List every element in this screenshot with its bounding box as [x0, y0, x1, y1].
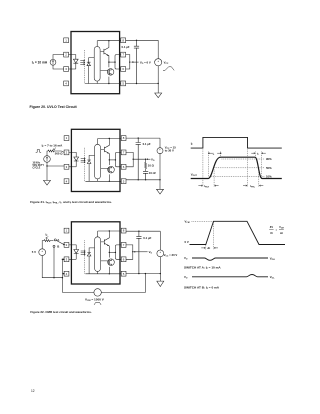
svg-text:to 30 V: to 30 V	[165, 149, 174, 153]
wire vcc bottom	[159, 257, 161, 274]
svg-text:0.1 µF: 0.1 µF	[143, 236, 151, 240]
formula dV/dt	[270, 226, 284, 235]
wire B down	[53, 247, 55, 278]
switch S1 terminal A	[54, 239, 56, 241]
dashed marker tf bounds	[255, 152, 261, 178]
svg-text:10 Ω: 10 Ω	[148, 164, 155, 168]
wire source to resistor	[47, 151, 48, 156]
junction	[145, 159, 146, 160]
svg-text:10%: 10%	[266, 175, 272, 179]
dashed marker 50% rise	[213, 170, 215, 187]
VO trace switch A	[192, 258, 268, 260]
svg-text:Δt: Δt	[207, 246, 210, 250]
optocoupler U1	[64, 129, 126, 191]
label VOUT	[191, 172, 198, 177]
capacitor C1 0.1uF	[136, 231, 141, 273]
wire pin7 pin6 join	[126, 152, 146, 166]
wire pin7 pin6 join	[126, 55, 130, 69]
pulse glyph	[36, 150, 41, 153]
percent labels	[266, 157, 272, 179]
arrow IF	[54, 148, 57, 151]
dashed dt bounds	[206, 223, 214, 250]
wire source bottom	[42, 256, 62, 278]
ramp waveform glyph	[163, 67, 174, 71]
current source IF=10mA	[50, 59, 56, 65]
svg-text:Δt: Δt	[280, 232, 283, 235]
dashed VCM level	[192, 220, 214, 222]
junction	[158, 83, 159, 84]
source VCM	[94, 289, 101, 296]
ground input	[44, 180, 51, 185]
wire to input ground	[46, 166, 48, 180]
svg-text:5 V: 5 V	[32, 250, 36, 254]
VOUT trace	[191, 157, 282, 178]
probe arrow VO = 6 V	[132, 61, 139, 63]
tr arrows and label	[208, 153, 221, 154]
junction	[62, 277, 63, 278]
dashed 10% level	[210, 176, 265, 178]
junction	[136, 40, 137, 41]
junction	[53, 277, 54, 278]
capacitor C2 10nF	[143, 171, 148, 179]
dt arrows and label	[201, 247, 218, 248]
ground rail wire	[126, 273, 160, 275]
tPLH arrows and label	[198, 185, 218, 186]
pulse glyph under VCM	[94, 303, 101, 305]
optocoupler U1	[64, 32, 126, 94]
svg-text:Figure 21. tPLH, tPHL, tr, and: Figure 21. tPLH, tPHL, tr, and tf test c…	[30, 200, 112, 205]
caption figure 20	[30, 105, 78, 109]
label 0 V	[185, 240, 189, 244]
junction	[138, 273, 139, 274]
svg-text:SWITCH AT B: IF = 0 mA: SWITCH AT B: IF = 0 mA	[184, 285, 220, 290]
ground	[157, 274, 164, 287]
svg-text:0.1 µF: 0.1 µF	[143, 142, 151, 146]
wire vcc bottom	[159, 154, 161, 180]
label VOL	[270, 275, 275, 280]
wire source to resistor	[42, 241, 44, 249]
wire VCM to output ground	[101, 274, 145, 293]
common node wire to pin3 pin4	[61, 259, 64, 292]
wire pin8 to VCC	[126, 230, 160, 232]
svg-text:90%: 90%	[266, 157, 272, 161]
svg-text:50%: 50%	[266, 166, 272, 170]
svg-text:VO = 6 V: VO = 6 V	[140, 60, 151, 65]
svg-text:0 V: 0 V	[185, 240, 189, 244]
wire pin8 to VCC	[126, 39, 159, 41]
dashed marker IF falling edge	[247, 150, 249, 187]
label VO switch A	[184, 256, 188, 261]
wire pin8 to VCC	[126, 137, 160, 139]
dashed 50% level	[215, 167, 265, 169]
junction	[145, 179, 146, 180]
svg-text:CYCLE: CYCLE	[33, 168, 41, 170]
switch S1 terminal B	[53, 245, 55, 247]
wire vcc top	[157, 40, 159, 58]
svg-text:0.1 µF: 0.1 µF	[122, 45, 130, 49]
wire vcc bottom	[157, 66, 159, 84]
resistor R1	[44, 240, 52, 242]
supply VCC source	[157, 148, 163, 154]
resistor R1 500ohm	[48, 150, 55, 152]
svg-text:10 nF: 10 nF	[149, 171, 157, 175]
label 10 KHz 50% duty cycle	[33, 163, 45, 170]
svg-text:IF = 10 mA: IF = 10 mA	[32, 61, 48, 66]
probe arrow VO	[134, 251, 148, 253]
VCM trapezoid trace	[190, 221, 286, 244]
label switch at B	[184, 285, 220, 290]
label VO switch B	[184, 275, 188, 280]
VO trace switch B	[192, 275, 268, 277]
label VCC	[164, 60, 169, 65]
label VCM	[185, 220, 190, 225]
svg-text:SWITCH AT A: IF = 10 mA: SWITCH AT A: IF = 10 mA	[184, 266, 221, 271]
svg-text:VCM: VCM	[279, 226, 284, 229]
supply VCC source	[157, 250, 164, 257]
junction	[160, 273, 161, 274]
label IF = 10 mA	[32, 61, 48, 66]
tPHL arrows and label	[243, 185, 263, 186]
svg-text:δt: δt	[270, 232, 273, 235]
junction	[46, 165, 47, 166]
ground rail wire	[126, 179, 160, 181]
junction	[138, 137, 139, 138]
wire source to pin3	[47, 162, 64, 166]
capacitor C1 0.1uF	[136, 138, 141, 180]
junction	[129, 61, 130, 62]
dashed marker 50% fall	[258, 172, 260, 187]
dashed marker IF rising edge	[202, 150, 204, 187]
svg-text:Figure 20. UVLO Test Circuit: Figure 20. UVLO Test Circuit	[30, 105, 78, 109]
label IF	[191, 141, 194, 146]
source 5V	[39, 249, 46, 256]
junction	[159, 179, 160, 180]
svg-text:12: 12	[31, 389, 35, 393]
wire vcc top	[159, 138, 161, 148]
junction	[138, 231, 139, 232]
svg-text:IF = 7 to 16 mA: IF = 7 to 16 mA	[42, 144, 64, 149]
junction	[145, 273, 146, 274]
label VCM = 1500 V	[85, 298, 105, 303]
wire resistor to pin2	[55, 151, 64, 152]
supply VCC source	[155, 59, 162, 66]
page number	[31, 389, 35, 393]
svg-text:500 Ω: 500 Ω	[55, 152, 63, 156]
caption figure 21	[30, 200, 112, 205]
dashed 90% level	[222, 158, 265, 160]
label switch at A	[184, 266, 221, 271]
junction	[62, 259, 63, 260]
wire to VCM source	[62, 291, 94, 293]
label VCC = 30 V	[164, 253, 178, 258]
junction	[132, 251, 133, 252]
wire vcc top	[159, 231, 161, 250]
svg-text:δV: δV	[270, 226, 274, 229]
wire source to pin2	[53, 55, 64, 60]
label IF = 7 to 16 mA	[42, 144, 64, 149]
wire pin7 pin6 join	[126, 245, 133, 259]
label VOH	[270, 256, 275, 261]
switch blade wire	[56, 240, 64, 244]
probe arrow VO	[147, 158, 151, 160]
pulse generator VG	[44, 156, 51, 163]
junction	[133, 159, 134, 160]
svg-text:Figure 22. CMR test circuit an: Figure 22. CMR test circuit and waveform…	[30, 310, 92, 314]
junction	[136, 83, 137, 84]
wire source to pin3	[53, 65, 64, 69]
capacitor C1 0.1uF	[134, 40, 139, 83]
ground output	[157, 180, 164, 194]
ground	[155, 84, 162, 98]
svg-text:B: B	[57, 245, 59, 249]
dashed marker tr bounds	[209, 152, 221, 178]
tf arrows and label	[251, 153, 265, 154]
label VCC = 15 to 30 V	[165, 146, 177, 153]
IF pulse trace	[191, 137, 282, 148]
caption figure 22	[30, 310, 92, 314]
ground rail wire	[126, 83, 159, 85]
resistor R2 10ohm	[145, 159, 147, 171]
optocoupler U1	[64, 222, 126, 284]
junction	[138, 179, 139, 180]
label IF with arrow	[46, 233, 49, 238]
